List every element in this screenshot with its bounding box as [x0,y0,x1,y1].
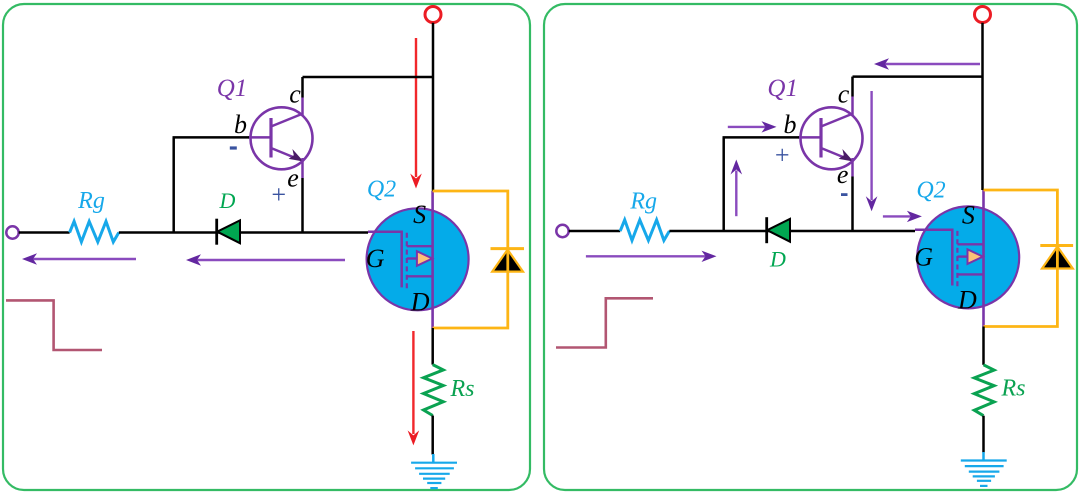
MOSFET Q2 body circle (left panel) [367,208,469,310]
wire drain supply vertical (right panel) [981,23,984,190]
svg-text:G: G [914,243,933,272]
svg-text:b: b [234,110,247,139]
svg-text:D: D [957,286,977,315]
body diode (right panel) [1040,246,1073,269]
svg-text:+: + [270,180,288,209]
svg-text:e: e [837,160,849,189]
MOSFET Q2 body stub (left panel) [407,257,418,259]
svg-text:Q1: Q1 [217,75,248,102]
wire drain supply vertical (left panel) [432,23,435,191]
transistor Q1 (PNP, left panel) [248,107,313,169]
current arrow purple up (junction, right panel) [731,160,743,217]
current arrow purple left (input, left panel) [22,253,136,264]
svg-text:e: e [287,164,299,193]
wire collector top horizontal (right panel) [853,75,984,78]
svg-text:Rg: Rg [629,189,657,215]
wire Rs to ground (right panel) [982,416,985,453]
svg-text:D: D [219,188,236,213]
current arrow purple left (top, right panel) [874,58,980,69]
wire Rg to gate (left panel) [119,231,368,234]
diode D (left panel) [217,219,240,245]
svg-text:+: + [773,141,791,170]
step waveform rising (right panel) [556,298,653,347]
wire Rs to ground (left panel) [431,416,434,455]
MOSFET Q2 body stub (right panel) [957,255,968,257]
current arrow purple right (input, right panel) [586,251,717,262]
wire emitter lead e (right panel) [851,158,854,177]
current arrow red down (source loop, left panel) [408,331,420,445]
resistor Rg (right panel) [620,220,669,241]
diode D (right panel) [767,217,790,243]
MOSFET Q2 drain stub (right panel) [957,273,984,275]
transistor Q1 (PNP, right panel) [798,107,863,169]
MOSFET Q2 body arrow (left panel) [417,251,432,266]
node input terminal (right panel) [556,225,568,237]
wire input to Rg (left panel) [19,231,70,234]
label minus at base (left panel) [230,146,237,149]
resistor Rs (left panel) [424,365,444,416]
step waveform falling (left panel) [6,300,102,350]
svg-text:D: D [410,288,430,317]
node VDD terminal (red circle, right panel) [975,7,991,23]
MOSFET Q2 body arrow (right panel) [968,249,983,264]
wire collector top horizontal (left panel) [303,76,435,79]
MOSFET Q2 drain stub (left panel) [407,275,434,277]
MOSFET Q2 channel dashed (right panel) [956,231,958,287]
wire drain to Rs (right panel) [982,327,985,365]
MOSFET Q2 gate lead (right panel) [915,230,952,286]
svg-text:b: b [784,110,797,139]
panel border right [544,4,1077,490]
wire source-drain vertical purple (left panel) [431,191,434,328]
svg-text:Rs: Rs [1001,376,1026,402]
ground (left panel) [411,454,457,488]
svg-text:S: S [962,201,975,230]
wire drain to Rs (left panel) [431,328,434,365]
wire collector lead c (right panel) [851,77,854,97]
MOSFET Q2 gate lead (left panel) [368,232,402,288]
resistor Rg (left panel) [70,221,119,242]
current arrow red down (drain, left panel) [410,38,422,189]
wire base to junction (right panel) [723,136,800,139]
wire collector lead c (left panel) [301,77,304,98]
svg-text:S: S [413,200,426,229]
MOSFET Q2 source stub (right panel) [957,243,984,245]
wire source-drain vertical purple (right panel) [982,190,985,327]
current arrow purple right (to gate S, right panel) [883,211,922,222]
wire base to junction (left panel) [173,136,250,139]
svg-text:Q2: Q2 [916,178,945,204]
svg-text:D: D [769,247,786,272]
svg-text:Q2: Q2 [367,177,396,203]
current arrow purple down (collector, right panel) [866,91,878,211]
current arrow purple right (to base, right panel) [728,121,777,132]
resistor Rs (right panel) [974,365,994,416]
MOSFET Q2 source stub (left panel) [407,245,434,247]
wire input to Rg (right panel) [569,230,621,233]
svg-text:c: c [838,80,850,109]
wire junction vertical (right panel) [722,137,725,231]
MOSFET Q2 body circle (right panel) [917,206,1019,308]
node VDD terminal (red circle, left panel) [425,7,441,23]
svg-text:Q1: Q1 [767,75,798,102]
label minus at emitter (right panel) [841,193,848,196]
ground (right panel) [961,452,1007,486]
body diode (left panel) [491,249,525,272]
current arrow purple left (gate loop, left panel) [186,254,345,265]
node input terminal (left panel) [6,226,18,238]
panel border left [3,4,530,490]
svg-text:Rs: Rs [450,376,475,402]
wire body-diode branch orange (left panel) [433,191,508,328]
svg-text:c: c [289,80,301,109]
wire Rg to gate (right panel) [669,230,915,233]
svg-text:G: G [366,244,385,273]
wire emitter lead e (left panel) [301,158,304,178]
wire body-diode branch orange (right panel) [984,190,1058,327]
wire junction vertical (left panel) [172,137,175,232]
MOSFET Q2 channel dashed (left panel) [406,233,408,289]
svg-text:Rg: Rg [77,188,105,214]
